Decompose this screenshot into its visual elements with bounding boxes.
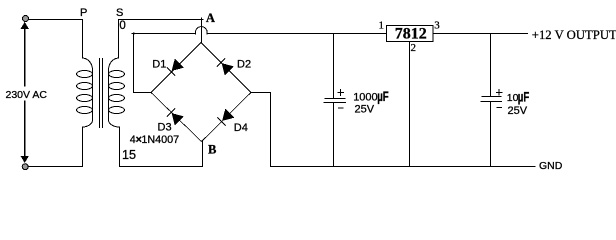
wire (bottom terminal to primary bottom) — [28, 166, 83, 168]
regulator U1 7812 box — [387, 26, 434, 42]
capacitor C2 plates — [482, 96, 502, 98]
capacitor C2 polarity - — [497, 106, 503, 108]
230V AC dimension arrow (down) — [21, 101, 29, 164]
svg-text:A: A — [206, 11, 215, 25]
capacitor C1 top lead — [333, 34, 335, 98]
wire (bridge left corner stub) — [133, 92, 152, 94]
wire (primary bottom lead) — [82, 127, 84, 167]
terminal T1 (top input terminal) — [23, 16, 29, 22]
svg-text:1: 1 — [379, 20, 385, 32]
capacitor C1 plates — [325, 98, 346, 100]
svg-text:15: 15 — [122, 148, 136, 162]
svg-text:7812: 7812 — [395, 26, 427, 43]
wire (regulator pin2 to ground) — [409, 42, 411, 167]
svg-text:D3: D3 — [158, 122, 172, 134]
svg-text:0: 0 — [119, 20, 125, 32]
diode D4 — [217, 109, 247, 134]
svg-text:25V: 25V — [508, 105, 528, 117]
svg-text:4×1N4007: 4×1N4007 — [130, 134, 179, 146]
svg-text:25V: 25V — [355, 104, 375, 116]
label 230V AC — [4, 87, 46, 100]
svg-text:D4: D4 — [234, 122, 248, 134]
plus rail left tick arrow — [131, 32, 134, 35]
wire (primary top lead) — [82, 19, 84, 59]
wire (secondary 15 tap rail to node B) — [119, 166, 203, 168]
capacitor C2 top lead — [490, 34, 492, 97]
wire (secondary 0 tap to node A) — [118, 18, 203, 20]
svg-text:D1: D1 — [152, 58, 166, 70]
svg-text:µF: µF — [518, 90, 530, 105]
wire (regulator output rail) — [434, 33, 529, 35]
svg-text:D2: D2 — [237, 58, 251, 70]
capacitor C2 bottom lead — [490, 102, 492, 167]
diode D3 — [158, 108, 184, 133]
transformer secondary winding — [108, 58, 124, 127]
wire (bridge right corner stub) — [251, 92, 272, 94]
plus rail with hop over node A wire — [134, 27, 387, 35]
svg-text:10: 10 — [507, 92, 519, 104]
capacitor C1 bottom lead — [333, 103, 335, 167]
svg-text:2: 2 — [411, 42, 417, 54]
diode D2 — [217, 58, 251, 75]
transformer core — [100, 58, 103, 128]
diode D1 — [152, 58, 184, 75]
capacitor C2 polarity + — [496, 89, 503, 96]
bridge diamond edges — [151, 43, 251, 142]
wire (top terminal to primary top) — [29, 19, 83, 21]
svg-text:GND: GND — [539, 160, 563, 172]
capacitor C1 polarity + — [337, 89, 344, 96]
wire (right corner down to ground rail) — [270, 92, 272, 167]
svg-text:+12 V OUTPUT: +12 V OUTPUT — [532, 28, 616, 42]
terminal T2 (bottom input terminal) — [22, 164, 28, 170]
svg-text:S: S — [116, 7, 123, 19]
wire (node A down to bridge top) — [201, 19, 203, 43]
wire (bridge bottom to node B rail) — [202, 141, 204, 167]
ground rail — [270, 166, 536, 168]
svg-text:µF: µF — [377, 89, 389, 104]
transformer primary winding — [77, 58, 93, 127]
svg-text:230V AC: 230V AC — [6, 89, 48, 101]
wire (secondary top lead) — [118, 19, 120, 59]
svg-text:3: 3 — [434, 20, 440, 32]
svg-text:B: B — [208, 142, 217, 156]
wire (secondary bottom lead) — [119, 127, 121, 167]
svg-text:1000: 1000 — [353, 92, 377, 104]
wire (left corner up) — [133, 33, 135, 93]
230V AC dimension arrow (up) — [21, 22, 29, 87]
svg-text:P: P — [80, 7, 87, 19]
capacitor C1 polarity - — [338, 107, 344, 109]
